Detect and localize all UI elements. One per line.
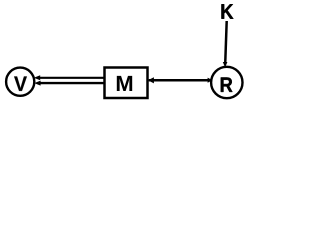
wire K to R <box>225 21 227 64</box>
wire M to R <box>149 79 210 82</box>
wire (double line V to M, lower) <box>39 82 105 84</box>
wire (double line V to M, upper) <box>38 77 105 79</box>
arrowhead on upper wire at V <box>34 75 40 80</box>
rheostat R <box>211 67 242 98</box>
arrowhead on wire at M end <box>148 77 154 83</box>
arrowhead on lower wire at V <box>34 81 40 86</box>
arrowhead on wire at R (bottom of K wire) <box>223 62 228 68</box>
arrowhead on wire at R end <box>208 78 213 83</box>
motor M <box>105 68 148 99</box>
node K <box>221 4 233 18</box>
voltmeter V <box>6 68 34 96</box>
